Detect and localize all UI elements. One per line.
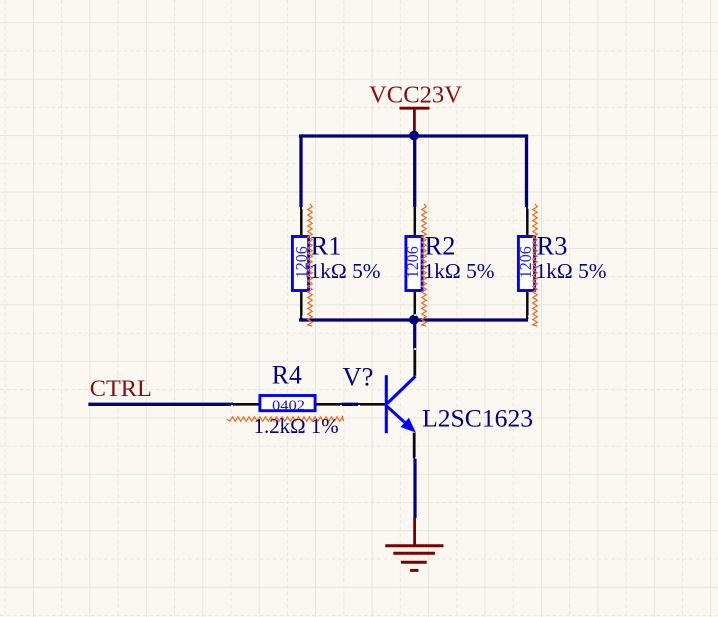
ground power port bars (385, 546, 443, 571)
svg-text:1206: 1206 (292, 246, 311, 278)
wire CTRL to R4 (90, 403, 232, 406)
compile-error squiggle R4 (227, 417, 344, 421)
resistor R1 (292, 207, 308, 319)
pin-end dot R1 top (302, 207, 304, 209)
wire bottom rail (301, 318, 527, 321)
svg-text:R2: R2 (425, 232, 456, 261)
resistor R3 (518, 207, 534, 319)
power port VCC23V bar symbol (400, 108, 430, 134)
pin-end dot R1 bottom (302, 316, 304, 318)
svg-text:1206: 1206 (403, 246, 422, 278)
transistor V? emitter pin (413, 433, 416, 458)
ground power port stem (413, 518, 416, 546)
transistor V? collector stroke (387, 376, 415, 403)
pin-end dot R4 right (340, 405, 342, 407)
compile-error squiggle R1 (308, 204, 312, 326)
junction at bottom rail (409, 315, 419, 325)
resistor R4 left pin (232, 403, 260, 406)
pin-end dot R2 bottom (414, 314, 416, 316)
transistor V? base bar (385, 375, 388, 433)
svg-text:VCC23V: VCC23V (369, 81, 462, 108)
junction at VCC rail (409, 131, 419, 141)
svg-text:CTRL: CTRL (90, 376, 152, 402)
resistor R4 right pin (316, 403, 342, 406)
svg-text:V?: V? (342, 361, 373, 391)
pin-end dot R3 bottom (528, 316, 530, 318)
pin-end dot collector pin (414, 348, 416, 350)
pin-end dot base pin (358, 405, 360, 407)
transistor V? collector pin (413, 348, 416, 375)
wire from bottom rail to collector (413, 320, 416, 348)
transistor V? base pin (358, 403, 385, 406)
wire right drop to R3 (525, 136, 528, 207)
resistor R4 body (260, 396, 315, 411)
pin-end dot R4 left (231, 405, 233, 407)
svg-text:R3: R3 (537, 232, 568, 261)
wire R4 to base (342, 403, 359, 406)
wire emitter to ground (413, 458, 416, 518)
transistor V? emitter arrowhead (401, 418, 416, 433)
svg-text:R1: R1 (311, 232, 342, 261)
transistor V? emitter stroke (387, 407, 405, 424)
pin-end dot R3 top (528, 207, 530, 209)
resistor R2 (406, 207, 422, 319)
wire left drop to R1 (299, 136, 302, 207)
compile-error squiggle R2 (422, 204, 426, 326)
svg-text:1kΩ 5%: 1kΩ 5% (310, 259, 381, 283)
svg-text:1kΩ 5%: 1kΩ 5% (536, 259, 607, 283)
svg-text:1.2kΩ 1%: 1.2kΩ 1% (254, 414, 339, 438)
svg-text:R4: R4 (272, 361, 302, 390)
compile-error squiggle R3 (533, 204, 537, 326)
svg-text:1kΩ 5%: 1kΩ 5% (424, 259, 495, 283)
svg-text:1206: 1206 (516, 246, 535, 278)
svg-text:L2SC1623: L2SC1623 (422, 403, 533, 432)
wire middle drop to R2 (413, 136, 416, 207)
pin-end dot emitter pin (415, 457, 417, 459)
svg-text:0402: 0402 (272, 398, 305, 414)
pin-end dot R2 top (416, 207, 418, 209)
wire top rail (301, 134, 527, 137)
